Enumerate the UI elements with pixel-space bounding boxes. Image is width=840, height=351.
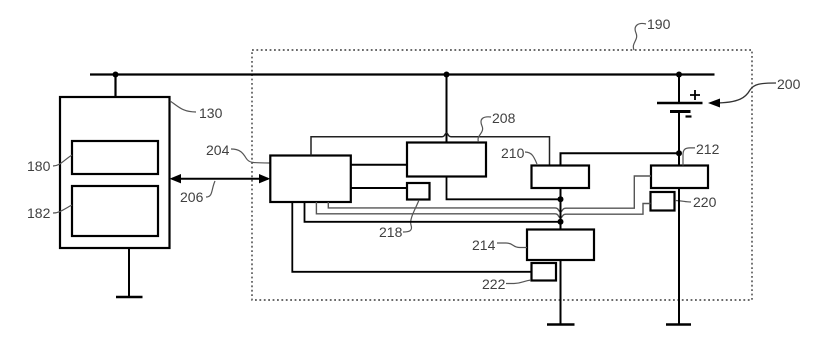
- svg-text:218: 218: [379, 224, 403, 240]
- svg-text:180: 180: [27, 158, 51, 174]
- junction dot above block 130: [113, 72, 119, 78]
- ground below 214: [547, 323, 575, 326]
- junction dot above block 208: [444, 72, 450, 78]
- block 210: [532, 166, 590, 189]
- block 180: [72, 141, 158, 174]
- svg-text:200: 200: [777, 76, 801, 92]
- junction dot on battery stem: [676, 150, 682, 156]
- ground below battery branch: [666, 323, 691, 326]
- wire: rail to block 208 top: [446, 75, 448, 143]
- svg-text:220: 220: [693, 194, 717, 210]
- gray wire: 204 to 212 with hop over bus: [328, 176, 651, 212]
- battery 200 stem upper: [678, 75, 680, 104]
- block 214: [527, 230, 594, 261]
- battery 200 short plate: [670, 110, 691, 113]
- wire: block 130 to ground: [128, 248, 130, 297]
- junction dot at battery tap: [676, 72, 682, 78]
- svg-text:130: 130: [199, 105, 223, 121]
- bidirectional arrow 206 between 130 and 204: [172, 178, 268, 180]
- battery minus sign: [686, 115, 692, 117]
- block 130: [60, 97, 170, 248]
- ground below block 130: [116, 296, 143, 299]
- bus: 210 bottom to 214 top: [560, 188, 562, 230]
- wire: 208 bottom to bus junction: [447, 177, 561, 200]
- block 222: [532, 263, 557, 281]
- wire: 204 to 208: [351, 164, 407, 166]
- wire: rail to block 130 top: [114, 75, 116, 98]
- block 208: [407, 143, 486, 177]
- gray wire: 204 to 220 with hop over bus: [316, 202, 650, 218]
- block 182: [72, 186, 158, 236]
- block 212: [651, 166, 708, 189]
- battery stem lower to block 212: [678, 112, 680, 166]
- block 218: [407, 183, 430, 200]
- wire: 204 top to 210 top with hop over 208 stem: [311, 133, 550, 165]
- wire: 212 to ground: [678, 188, 680, 325]
- svg-text:214: 214: [472, 237, 496, 253]
- junction dot bus upper: [558, 196, 564, 202]
- block 220: [651, 192, 675, 211]
- svg-text:206: 206: [180, 189, 204, 205]
- battery 200 long plate: [657, 102, 703, 105]
- wire: 214 to ground: [560, 260, 562, 325]
- wire: 204 to 218: [351, 187, 407, 189]
- wire: 210 top to battery stem: [561, 153, 680, 165]
- svg-text:208: 208: [492, 110, 516, 126]
- svg-text:190: 190: [647, 16, 671, 32]
- wire: 204 to 222: [292, 202, 531, 272]
- battery plus sign: [690, 90, 700, 100]
- svg-text:222: 222: [482, 276, 506, 292]
- dashed boundary box 190: [252, 50, 752, 300]
- svg-text:210: 210: [501, 145, 525, 161]
- svg-text:212: 212: [696, 141, 720, 157]
- wire: 204 to bus junction: [305, 202, 561, 222]
- svg-text:182: 182: [27, 205, 51, 221]
- block 204: [270, 156, 351, 203]
- junction dot bus lower: [558, 219, 564, 225]
- svg-text:204: 204: [206, 142, 230, 158]
- power rail: [90, 73, 715, 75]
